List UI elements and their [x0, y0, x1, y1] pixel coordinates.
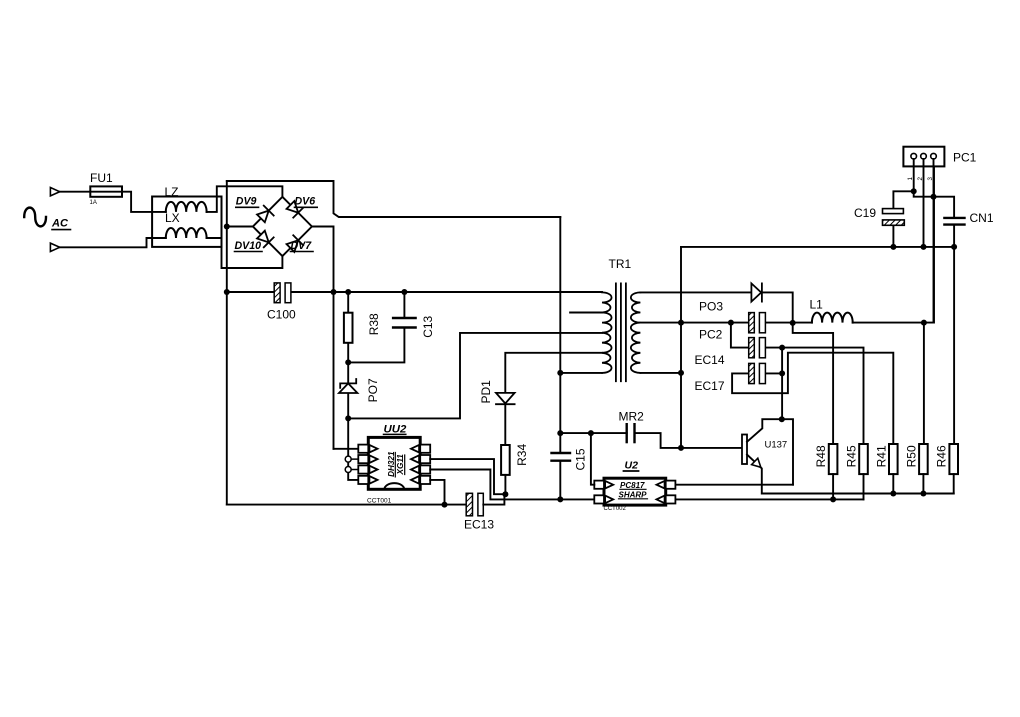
wire U2 pin2 right to R48 R45: [676, 498, 864, 500]
junction common vertical at U137 base wire: [678, 445, 684, 451]
svg-text:CN1: CN1: [970, 211, 994, 225]
inductor L1: [812, 313, 853, 323]
junction C15 bottom: [557, 496, 563, 502]
choke box: [152, 197, 221, 247]
svg-text:LX: LX: [165, 211, 180, 225]
wire UU2 pin3 to U2 pin2: [430, 470, 594, 500]
resistor R50: [919, 444, 928, 474]
wire DC rail left vertical x=227: [226, 181, 228, 505]
junction MR2 line at x560: [557, 430, 563, 436]
wire bridge top edge: [227, 181, 561, 217]
wire UU2 pin4 net from bridge nodes: [334, 418, 359, 480]
resistor R48: [829, 444, 838, 474]
transformer TR1 secondary winding: [631, 292, 641, 373]
capacitor EC17: [732, 353, 893, 444]
diode PO3: [751, 283, 761, 301]
svg-text:CCT002: CCT002: [604, 506, 627, 512]
UU2 pin2 pin3 no-connect circles: [345, 456, 351, 462]
svg-text:R46: R46: [935, 445, 949, 467]
svg-text:DV6: DV6: [295, 196, 316, 208]
svg-text:EC17: EC17: [695, 379, 725, 393]
node AC label: [51, 218, 69, 230]
wire TR1 primary stub tap: [570, 312, 602, 314]
capacitor C15: [552, 452, 571, 454]
fuse FU1: [90, 186, 122, 196]
svg-text:C15: C15: [574, 448, 588, 470]
diode PD1: [505, 353, 602, 445]
wire PC1 pin2: [923, 159, 925, 247]
svg-text:R34: R34: [515, 444, 529, 466]
svg-text:R48: R48: [814, 445, 828, 467]
svg-text:1A: 1A: [90, 200, 97, 206]
wire LZ to bridge top corner: [207, 186, 283, 212]
wire bottom ground rail: [227, 504, 466, 506]
junction U137 collector top: [779, 416, 785, 422]
svg-text:PC2: PC2: [699, 328, 723, 342]
junction R50 at emitter net: [920, 491, 926, 497]
svg-text:PO3: PO3: [699, 300, 723, 314]
diode DV10: [257, 231, 274, 248]
svg-text:C13: C13: [421, 315, 435, 337]
UU2 left pins: [358, 445, 377, 484]
svg-text:AC: AC: [51, 218, 69, 230]
wire U2 pin1 up to MR2 node: [591, 433, 594, 485]
wire U137 emitter net to R41 R50 R46: [762, 493, 954, 495]
transistor U137: [742, 435, 747, 465]
wire bridge+ down to primary bottom and C15: [559, 217, 561, 453]
resistor R38: [347, 292, 349, 362]
resistor R46: [949, 444, 958, 474]
junction bridge right corner net at primary top line: [331, 289, 337, 295]
svg-text:EC13: EC13: [464, 518, 494, 532]
svg-text:R50: R50: [905, 445, 919, 467]
wire TR1 secondary tap to common: [640, 322, 681, 324]
resistor R45: [859, 444, 868, 474]
capacitor C100: [274, 283, 280, 303]
wire TR1 secondary bottom to common: [640, 372, 681, 374]
capacitor C13: [348, 292, 404, 362]
junction secondary tap at common vertical: [678, 320, 684, 326]
wire R48 top branch: [793, 323, 833, 444]
capacitor EC14: [731, 323, 782, 348]
bridge diamond: [253, 197, 312, 256]
wire secondary common vertical x=681: [680, 247, 682, 448]
wire UU2 pin2 to R34 bottom node: [430, 459, 505, 494]
svg-text:U2: U2: [625, 459, 639, 471]
svg-text:U137: U137: [765, 439, 788, 450]
junction C13 at primary top line: [401, 289, 407, 295]
svg-text:DV9: DV9: [236, 196, 257, 208]
junction R48 bottom: [830, 496, 836, 502]
wire TR1 secondary top to PO3: [640, 291, 751, 293]
terminal AC line2: [50, 243, 59, 251]
wire bridge left corner to DC rail: [227, 226, 253, 228]
svg-text:UU2: UU2: [384, 423, 407, 435]
wire PO7 node to transformer tap3: [348, 333, 602, 419]
wire R50 top branch: [923, 323, 925, 444]
svg-text:DV7: DV7: [291, 240, 313, 252]
junction PO3 cathode branch on output line: [790, 320, 796, 326]
wire PC1 pin3: [933, 159, 935, 323]
wire bridge right corner down: [312, 227, 334, 449]
capacitor CN1: [934, 197, 955, 247]
junction R38 bottom / C13: [345, 359, 351, 365]
wire pin1 to pin3 link: [914, 191, 934, 196]
junction R38 at primary top line: [345, 289, 351, 295]
junction bridge left corner on DC rail: [224, 224, 230, 230]
junction CN1 at top rail: [951, 244, 957, 250]
junction U2 pin1 branch on MR2 line: [588, 430, 594, 436]
svg-text:PO7: PO7: [366, 378, 380, 402]
svg-text:PC1: PC1: [953, 151, 977, 165]
wire EC right node down to U137 collector: [781, 348, 783, 420]
wire PC1 pin1: [913, 159, 915, 191]
junction secondary bottom at common vertical: [678, 370, 684, 376]
svg-text:PC817: PC817: [620, 481, 645, 490]
svg-text:PD1: PD1: [479, 380, 493, 404]
junction R41 at emitter net: [890, 491, 896, 497]
junction DC rail at C100 line: [224, 289, 230, 295]
junction PO7 bottom: [345, 415, 351, 421]
junction primary bottom at x560: [557, 370, 563, 376]
inductor LZ (common mode choke top): [166, 202, 207, 212]
inductor LX (common mode choke bottom): [166, 228, 207, 238]
wire AC line2 to choke: [60, 238, 166, 247]
svg-text:XG11: XG11: [396, 454, 405, 476]
svg-text:CCT001: CCT001: [367, 497, 392, 504]
resistor R34: [501, 445, 510, 475]
wire UU2 pin4 right to ground rail: [430, 480, 444, 505]
U2 pins: [594, 481, 675, 504]
junction EC14 branch on output line: [728, 320, 734, 326]
IC U2 optocoupler body: [604, 478, 666, 505]
junction PC1 pin2 at top rail: [921, 244, 927, 250]
UU2 right pins: [411, 445, 430, 484]
svg-text:R45: R45: [845, 445, 859, 467]
junction R50 branch on L1 output: [921, 320, 927, 326]
svg-text:DV10: DV10: [235, 240, 262, 252]
junction UU2 pin4 at ground rail: [442, 502, 448, 508]
svg-text:C19: C19: [854, 206, 876, 220]
junction R34 bottom node: [502, 491, 508, 497]
AC source sine symbol: [24, 208, 46, 227]
diode DV7: [287, 235, 304, 252]
svg-text:FU1: FU1: [90, 171, 113, 185]
diode DV9: [257, 206, 274, 223]
junction EC17 right node: [779, 370, 785, 376]
capacitor C19: [893, 191, 913, 247]
transformer TR1 core: [616, 283, 626, 381]
svg-text:R41: R41: [874, 445, 888, 467]
wire LX to bridge bottom corner: [207, 238, 283, 268]
junction PC1 pin3 link: [931, 194, 937, 200]
svg-text:DH321: DH321: [387, 451, 396, 477]
junction C19 at top rail: [890, 244, 896, 250]
capacitor MR2: [560, 433, 742, 448]
wire primary top line with C100: [227, 291, 602, 293]
IC UU2 body: [368, 437, 420, 489]
junction EC14 right node: [779, 345, 785, 351]
wire L1 output to PC1 pin3 line: [853, 166, 934, 322]
capacitor EC13: [466, 493, 472, 516]
svg-text:R38: R38: [367, 313, 381, 335]
transformer TR1 primary winding: [602, 292, 612, 373]
svg-text:SHARP: SHARP: [619, 491, 648, 500]
svg-text:EC14: EC14: [695, 353, 725, 367]
svg-text:L1: L1: [810, 297, 824, 311]
connector PC1: [903, 147, 944, 167]
svg-text:TR1: TR1: [609, 257, 632, 271]
wire top output rail to PC1: [681, 246, 954, 248]
svg-text:MR2: MR2: [619, 410, 645, 424]
wire TR1 primary bottom: [560, 372, 602, 374]
diode DV6: [287, 201, 304, 218]
wire U2 pin1 right to U137 emitter area: [676, 484, 793, 486]
wire R46 top branch: [953, 247, 955, 444]
junction PC1 pin1: [911, 188, 917, 194]
terminal AC line1: [50, 188, 59, 196]
wire AC line1 to fuse and choke: [60, 192, 166, 212]
svg-text:C100: C100: [267, 307, 296, 321]
capacitor PC2: [681, 322, 812, 324]
resistor R41: [889, 444, 898, 474]
wire R45 top branch: [782, 348, 863, 444]
zener diode PO7: [347, 362, 349, 418]
